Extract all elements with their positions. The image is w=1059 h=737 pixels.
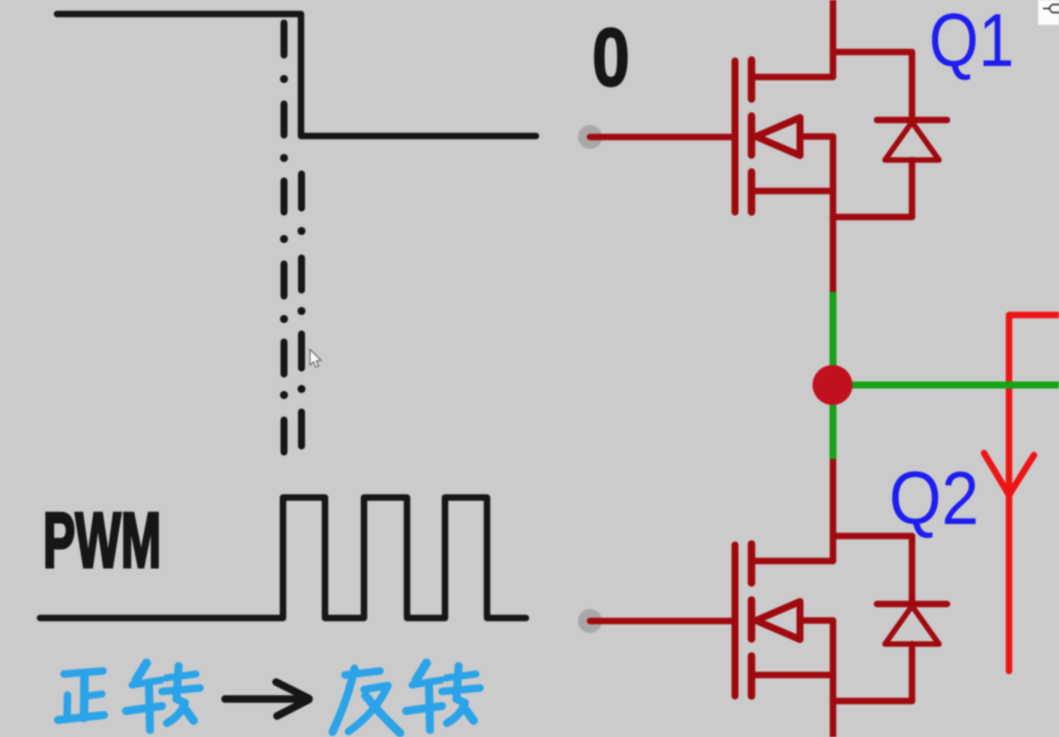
svg-text:Q1: Q1 [929,0,1014,82]
svg-text:Q2: Q2 [889,457,979,541]
svg-text:0: 0 [592,11,630,104]
svg-text:PWM: PWM [43,496,161,584]
